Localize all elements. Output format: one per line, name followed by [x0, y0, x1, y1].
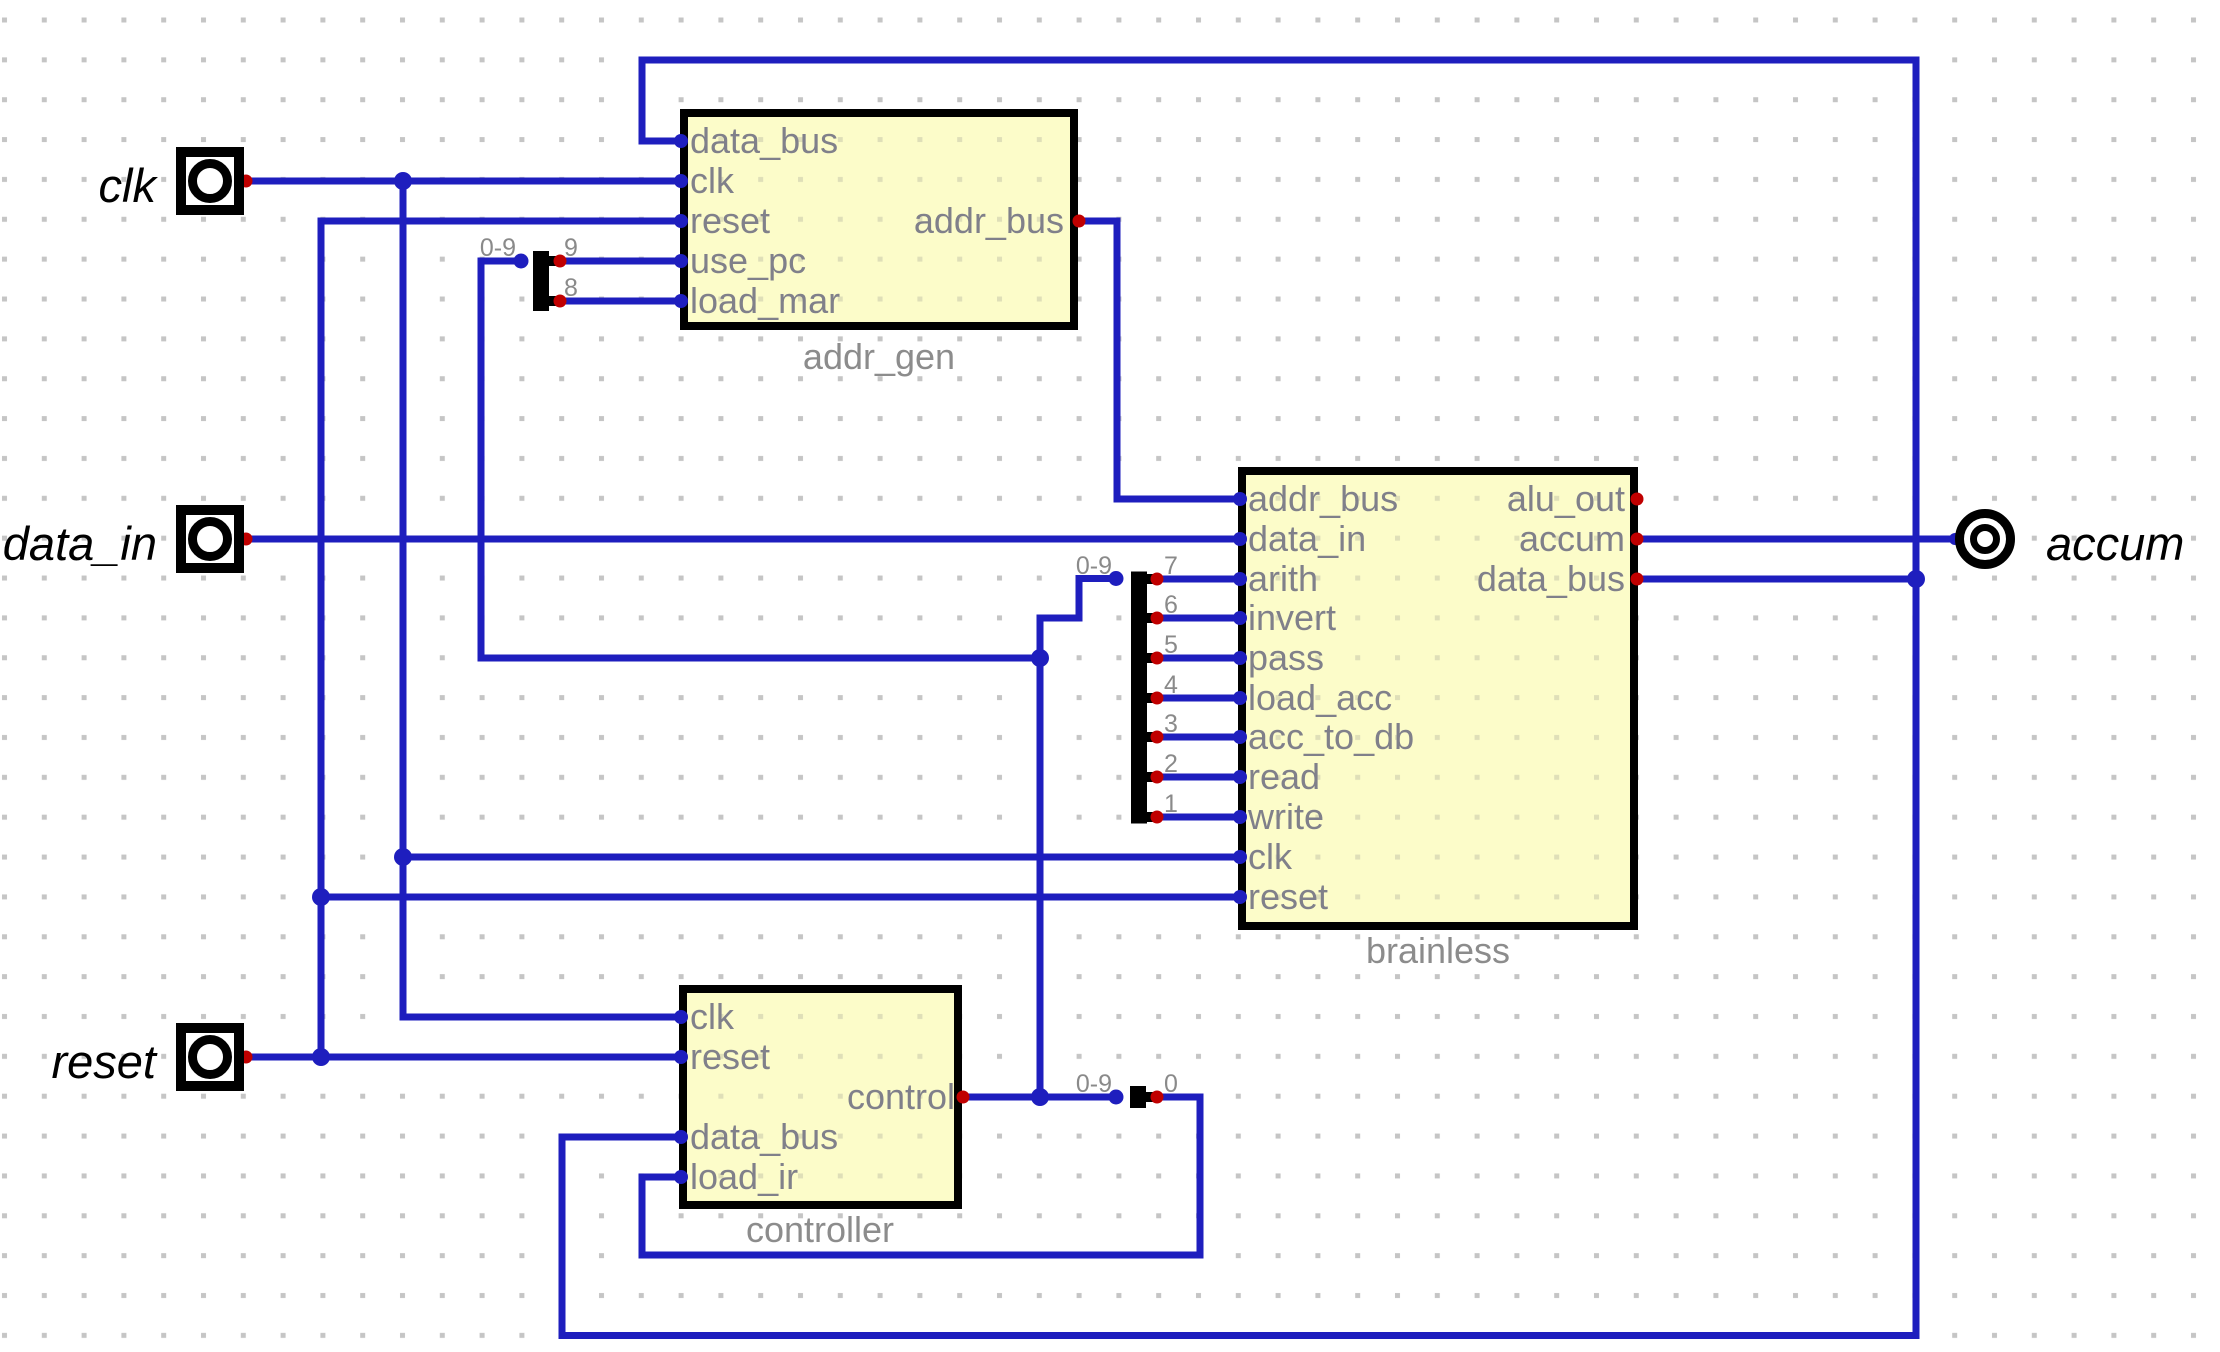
- svg-text:alu_out: alu_out: [1507, 478, 1625, 519]
- svg-text:acc_to_db: acc_to_db: [1248, 716, 1414, 757]
- svg-text:4: 4: [1164, 671, 1178, 699]
- svg-text:control: control: [847, 1076, 955, 1117]
- svg-text:2: 2: [1164, 750, 1178, 778]
- svg-text:addr_gen: addr_gen: [803, 336, 955, 377]
- svg-text:1: 1: [1164, 790, 1178, 818]
- svg-text:invert: invert: [1248, 597, 1336, 638]
- svg-text:data_bus: data_bus: [690, 120, 838, 161]
- svg-text:clk: clk: [1248, 836, 1293, 877]
- svg-text:clk: clk: [99, 159, 159, 212]
- svg-text:controller: controller: [746, 1209, 894, 1250]
- svg-text:9: 9: [564, 234, 578, 262]
- svg-text:6: 6: [1164, 591, 1178, 619]
- svg-text:data_bus: data_bus: [1477, 558, 1625, 599]
- svg-text:3: 3: [1164, 710, 1178, 738]
- svg-text:write: write: [1247, 796, 1324, 837]
- svg-text:0: 0: [1164, 1070, 1178, 1098]
- svg-text:reset: reset: [52, 1035, 158, 1088]
- svg-text:accum: accum: [2046, 517, 2184, 570]
- svg-text:arith: arith: [1248, 558, 1318, 599]
- svg-text:reset: reset: [690, 1036, 770, 1077]
- svg-text:addr_bus: addr_bus: [914, 200, 1064, 241]
- svg-text:0-9: 0-9: [480, 234, 516, 262]
- svg-text:clk: clk: [690, 160, 735, 201]
- svg-text:load_ir: load_ir: [690, 1156, 798, 1197]
- svg-text:reset: reset: [1248, 876, 1328, 917]
- svg-text:data_bus: data_bus: [690, 1116, 838, 1157]
- svg-text:use_pc: use_pc: [690, 240, 806, 281]
- svg-text:data_in: data_in: [1248, 518, 1366, 559]
- svg-text:8: 8: [564, 274, 578, 302]
- svg-text:0-9: 0-9: [1076, 552, 1112, 580]
- svg-text:load_mar: load_mar: [690, 280, 840, 321]
- svg-text:5: 5: [1164, 631, 1178, 659]
- svg-text:read: read: [1248, 756, 1320, 797]
- svg-text:data_in: data_in: [3, 517, 157, 570]
- svg-text:load_acc: load_acc: [1248, 677, 1392, 718]
- svg-text:addr_bus: addr_bus: [1248, 478, 1398, 519]
- svg-text:0-9: 0-9: [1076, 1070, 1112, 1098]
- svg-text:brainless: brainless: [1366, 930, 1510, 971]
- svg-text:accum: accum: [1519, 518, 1625, 559]
- svg-text:7: 7: [1164, 552, 1178, 580]
- svg-text:reset: reset: [690, 200, 770, 241]
- svg-text:clk: clk: [690, 996, 735, 1037]
- svg-text:pass: pass: [1248, 637, 1324, 678]
